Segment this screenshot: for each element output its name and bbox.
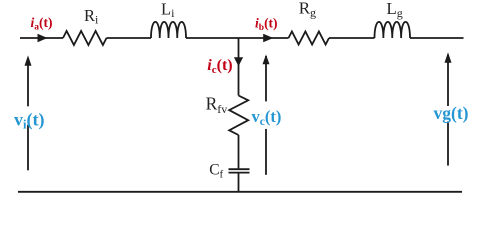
voltage arrowhead vg <box>445 52 452 62</box>
wire v_i arrow shaft <box>27 58 29 170</box>
inductor L_g <box>375 22 411 38</box>
wire v_c arrow shaft <box>265 56 267 175</box>
resistor R_fv <box>229 96 248 136</box>
svg-text:Rg: Rg <box>299 0 316 20</box>
capacitor C_f top plate <box>229 168 250 170</box>
svg-text:Li: Li <box>161 0 175 20</box>
wire from L_i through node A to R_g <box>186 37 289 39</box>
current arrowhead i_b <box>263 34 273 42</box>
wire C_f to bottom rail <box>238 173 240 191</box>
inductor L_i <box>151 22 186 38</box>
resistor R_g <box>289 32 330 45</box>
svg-text:ic(t): ic(t) <box>207 57 232 76</box>
wire from L_g to right end <box>410 37 464 39</box>
voltage arrowhead v_i <box>25 55 32 65</box>
wire middle branch vertical <box>238 38 240 96</box>
current arrowhead i_c <box>234 57 243 66</box>
svg-text:Ri: Ri <box>84 6 99 27</box>
label mask v_i <box>13 106 44 125</box>
wire vg arrow shaft <box>447 55 449 166</box>
wire R_fv to C_f <box>238 135 240 168</box>
capacitor C_f bottom plate <box>229 172 250 174</box>
wire bottom rail <box>18 191 462 193</box>
current arrowhead i_a <box>38 34 48 42</box>
label mask v_c <box>250 101 282 128</box>
svg-text:vc(t): vc(t) <box>252 107 282 128</box>
svg-text:vi(t): vi(t) <box>14 109 44 131</box>
resistor R_i <box>63 31 107 45</box>
svg-text:Lg: Lg <box>386 0 402 20</box>
svg-text:ia(t): ia(t) <box>31 15 53 33</box>
wire top-left input segment <box>20 37 63 39</box>
svg-text:Cf: Cf <box>209 162 223 181</box>
svg-text:vg(t): vg(t) <box>434 103 469 123</box>
wire between R_i and L_i <box>107 37 152 39</box>
wire between R_g and L_g <box>329 37 375 39</box>
label mask vg <box>433 106 465 122</box>
svg-text:ib(t): ib(t) <box>255 16 278 34</box>
voltage arrowhead v_c <box>263 55 270 65</box>
svg-text:Rfv: Rfv <box>206 94 228 117</box>
